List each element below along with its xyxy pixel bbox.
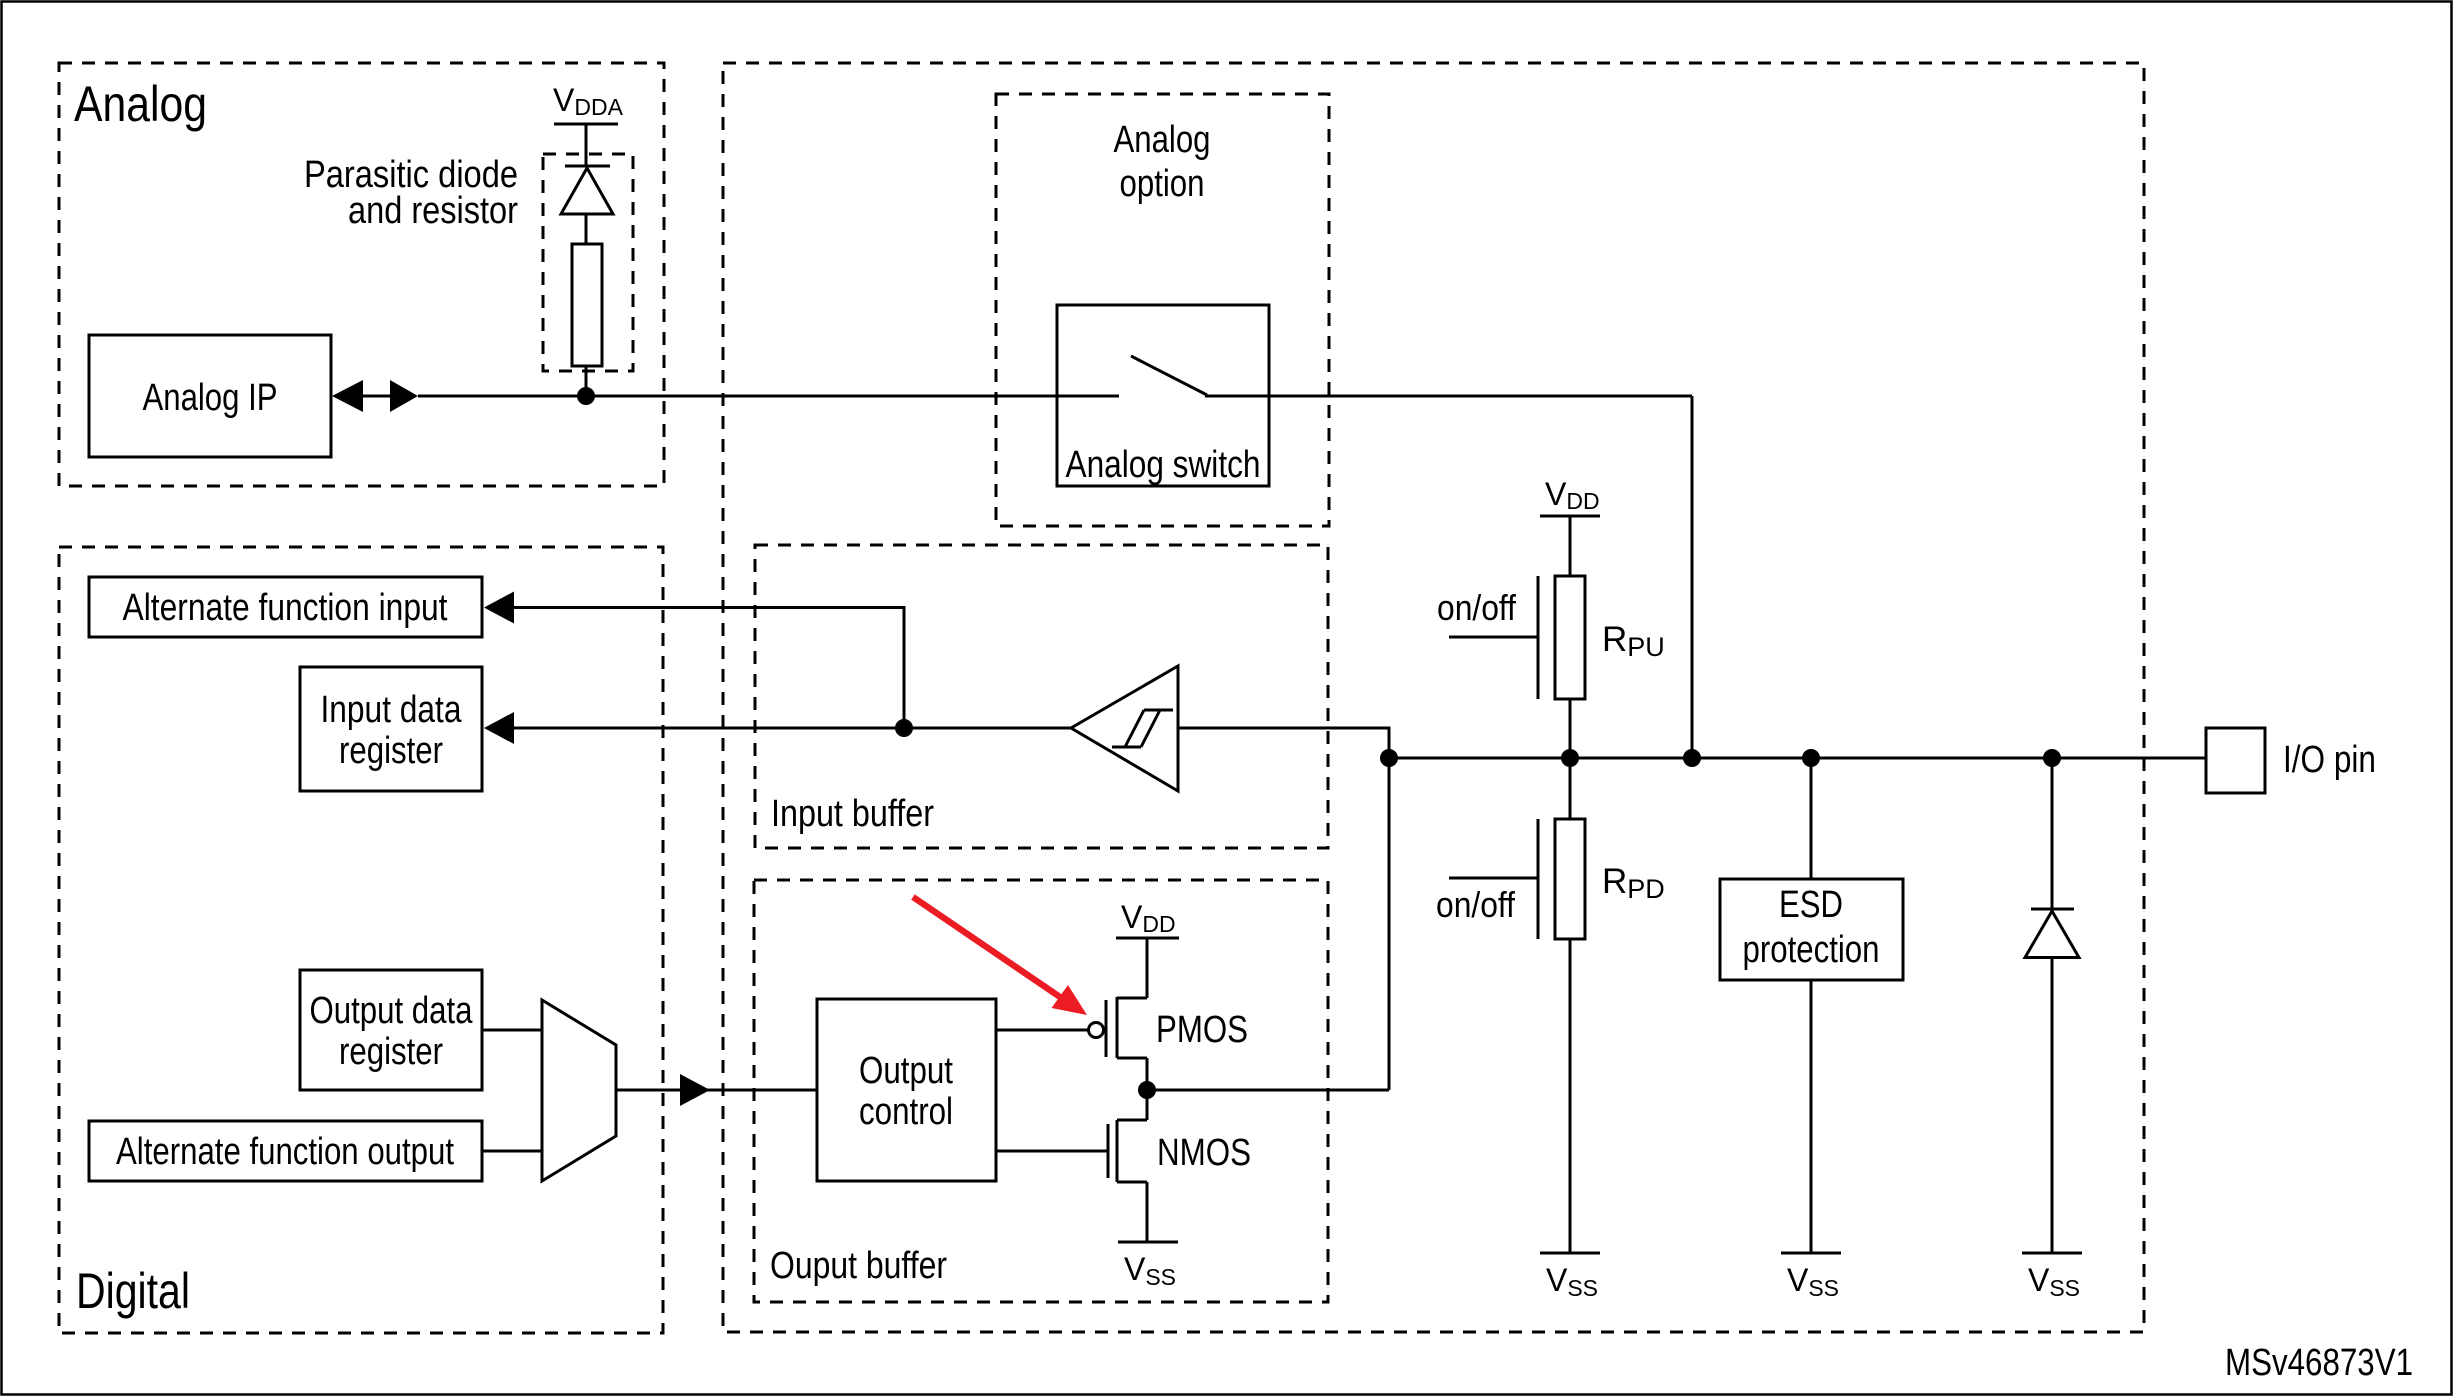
Output control box [817, 999, 996, 1181]
svg-text:control: control [859, 1091, 953, 1133]
wire switch to corner [1205, 395, 1692, 398]
diode D2 protection cathode bar [2031, 908, 2074, 911]
wire corner down to main net [1691, 396, 1694, 758]
wire drain junction to corner [1147, 1089, 1389, 1092]
switch arm [1131, 356, 1207, 395]
wire main net to ESD box [1810, 758, 1813, 879]
svg-text:on/off: on/off [1437, 587, 1517, 628]
svg-text:Digital: Digital [76, 1263, 190, 1319]
arrowhead into alternate function input [484, 592, 514, 624]
svg-text:option: option [1120, 163, 1205, 205]
Analog option dashed box [996, 94, 1329, 526]
ground VSS below NMOS [1118, 1241, 1178, 1244]
node main net at ESD [1802, 749, 1820, 767]
wire alternate function output to mux [482, 1150, 542, 1153]
wire VDD to RPU [1569, 516, 1572, 576]
svg-text:protection: protection [1743, 929, 1880, 971]
svg-text:Alternate function output: Alternate function output [116, 1131, 454, 1173]
power VDD bar above RPU [1540, 515, 1600, 518]
wire output data register to mux [482, 1029, 542, 1032]
svg-text:register: register [339, 1031, 443, 1073]
wire output control to NMOS gate [996, 1150, 1108, 1153]
node main net at RPU/RPD [1561, 749, 1579, 767]
power VDDA bar [554, 123, 618, 126]
svg-text:Analog IP: Analog IP [143, 377, 278, 419]
wire diode to VSS [2051, 957, 2054, 1253]
node main net at input branch [1380, 749, 1398, 767]
red arrow pointing at PMOS gate [913, 897, 1060, 997]
wire main net [1389, 757, 2206, 760]
wire on/off to RPD gate [1449, 877, 1538, 880]
wire analog net [418, 395, 1057, 398]
Output buffer dashed box [754, 880, 1328, 1302]
node main net at analog branch [1683, 749, 1701, 767]
wire output control to PMOS gate [996, 1029, 1088, 1032]
Analog IP box U1 [89, 335, 331, 457]
schmitt trigger TR input buffer [1071, 666, 1178, 791]
transistor Q2 NMOS [1108, 1090, 1147, 1242]
wire main net to protection diode [2051, 758, 2054, 911]
wire schmitt to corner [1178, 728, 1389, 1090]
svg-text:NMOS: NMOS [1157, 1132, 1251, 1174]
svg-text:PMOS: PMOS [1156, 1009, 1248, 1051]
svg-text:Alternate function input: Alternate function input [123, 587, 448, 629]
wire ESD box to VSS [1810, 980, 1813, 1253]
diode D2 protection triangle [2025, 911, 2079, 958]
wire main net to RPD [1569, 758, 1572, 819]
diode D1 parasitic cathode bar [565, 165, 610, 168]
Input buffer dashed box [755, 545, 1328, 848]
wire input data register to schmitt [514, 727, 1071, 730]
node PMOS/NMOS drain junction [1138, 1081, 1156, 1099]
resistor RPD [1555, 819, 1585, 939]
svg-text:ESD: ESD [1779, 884, 1843, 926]
svg-text:Input buffer: Input buffer [771, 793, 934, 835]
wire resistor to analog net [585, 366, 588, 396]
svg-text:MSv46873V1: MSv46873V1 [2225, 1342, 2413, 1384]
svg-text:register: register [339, 730, 443, 772]
svg-text:Output data: Output data [310, 990, 474, 1032]
ground VSS below ESD [1781, 1252, 1841, 1255]
transistor Q1 PMOS [1106, 997, 1147, 1090]
arrowhead on mux output wire [680, 1074, 710, 1106]
Analog switch box SW1 [1057, 305, 1269, 486]
diode D1 parasitic triangle [561, 168, 613, 214]
parasitic diode and resistor dashed box [543, 154, 633, 371]
wire alternate function input [514, 608, 904, 729]
wire VDD to PMOS source [1146, 938, 1149, 998]
resistor R parasitic [572, 244, 602, 366]
ground VSS below RPD [1540, 1252, 1600, 1255]
Alternate function output box [89, 1121, 482, 1181]
wire RPU to main net [1569, 699, 1572, 758]
power VDD bar above PMOS [1116, 937, 1179, 940]
schmitt hysteresis glyph [1112, 710, 1173, 747]
bidirectional arrow [332, 380, 363, 412]
svg-text:I/O pin: I/O pin [2283, 739, 2376, 781]
Output data register box [300, 970, 482, 1090]
svg-text:Output: Output [859, 1050, 953, 1092]
Analog region dashed box [59, 63, 664, 486]
Input data register box [300, 667, 482, 791]
Alternate function input box [89, 577, 482, 637]
node input net junction [895, 719, 913, 737]
svg-text:Input data: Input data [321, 689, 463, 731]
resistor RPU [1555, 576, 1585, 699]
ground VSS below diode [2022, 1252, 2082, 1255]
multiplexer MUX [542, 1000, 616, 1181]
PMOS gate bubble [1089, 1023, 1104, 1038]
svg-text:and resistor: and resistor [348, 190, 518, 232]
wire diode to resistor [585, 214, 588, 244]
node main net at diode [2043, 749, 2061, 767]
wire RPD to VSS [1569, 939, 1572, 1253]
svg-text:Analog: Analog [1114, 119, 1211, 161]
wire VDDA to diode [585, 124, 588, 166]
svg-text:Analog: Analog [74, 76, 207, 132]
wire mux to output control [616, 1089, 817, 1092]
switch left contact wire [1057, 395, 1119, 398]
Digital region dashed box [59, 547, 663, 1333]
ESD protection box [1720, 879, 1903, 980]
I/O pin pad [2206, 728, 2265, 793]
wire on/off to RPU gate [1449, 636, 1538, 639]
svg-text:Analog switch: Analog switch [1066, 444, 1261, 486]
svg-text:Ouput buffer: Ouput buffer [770, 1245, 947, 1287]
node analog net junction [577, 387, 595, 405]
main I/O structure dashed box [723, 63, 2144, 1332]
RPU switch gate bar [1537, 576, 1540, 699]
svg-text:on/off: on/off [1436, 884, 1516, 925]
RPD switch gate bar [1537, 819, 1540, 939]
arrowhead into input data register [484, 712, 514, 744]
